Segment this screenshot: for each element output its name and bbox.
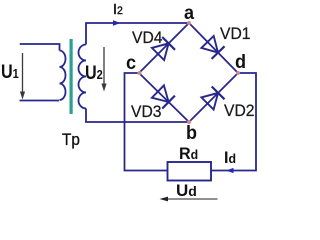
U2 voltage arrow (101, 47, 106, 92)
label U1 (1, 63, 19, 82)
wire c to left rail down to load (125, 73, 168, 171)
node b (187, 120, 191, 124)
Ud voltage arrow (160, 197, 218, 202)
node c (138, 71, 142, 75)
label Tp (62, 131, 80, 148)
label U2 (85, 64, 103, 83)
U1 voltage arrow (20, 53, 25, 100)
resistor Rd (168, 162, 212, 181)
wire bridge side a-d (189, 23, 238, 73)
diode VD3 (152, 85, 175, 108)
wire primary bottom (20, 100, 60, 102)
label I2 (113, 2, 123, 17)
transformer Tp primary winding (60, 51, 66, 101)
wire primary top (20, 44, 60, 51)
node a (187, 21, 191, 25)
label Id (224, 149, 236, 166)
label a (184, 4, 194, 23)
label VD3 (131, 104, 162, 121)
diode VD1 (201, 36, 224, 59)
node d (236, 71, 240, 75)
label VD2 (224, 103, 255, 120)
Id current arrow (226, 168, 234, 173)
I2 current arrow (113, 20, 121, 25)
label b (186, 124, 197, 143)
transformer core (70, 39, 73, 114)
transformer Tp secondary winding (79, 45, 87, 109)
wire d to right rail down to load (211, 73, 256, 171)
wire secondary top to node a (86, 23, 189, 45)
label VD1 (220, 26, 251, 43)
wire bridge side c-a (139, 23, 189, 73)
wire bridge side b-d (189, 73, 238, 122)
label d (235, 53, 246, 72)
diode VD4 (152, 37, 175, 60)
label Rd (179, 145, 198, 162)
label c (126, 54, 136, 73)
wire secondary bottom to node b (86, 109, 189, 123)
diode VD2 (201, 87, 224, 110)
label Ud (176, 182, 197, 199)
label VD4 (132, 30, 163, 47)
wire bridge side c-b (139, 73, 189, 122)
